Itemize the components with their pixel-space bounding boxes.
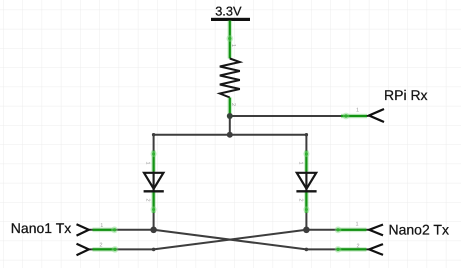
junction node: resistor / RPi wire [227, 113, 233, 119]
wire: Nano1 Tx pin1 to left node [89, 229, 153, 231]
svg-text:1: 1 [356, 222, 359, 228]
pin: 3.3V flag to resistor (green) [226, 21, 233, 59]
svg-text:1: 1 [230, 44, 236, 47]
corner dot: bus right [305, 133, 308, 136]
bend dot: right row2 [305, 248, 309, 252]
pin: Nano1 port pin1 (green) [93, 226, 118, 233]
pin: Nano2 port pin1 (green) [335, 226, 367, 233]
port chevron: Nano1 pin1 [77, 224, 89, 235]
diode D1 (left) [144, 173, 164, 192]
svg-text:2: 2 [100, 243, 103, 249]
pin: D2 anode (green) [303, 151, 309, 172]
port chevron: Nano2 pin1 [369, 225, 383, 236]
svg-text:2: 2 [357, 244, 360, 250]
wire: Nano1 Tx pin2 horizontal [89, 248, 153, 250]
svg-text:2: 2 [297, 199, 303, 202]
pin: resistor bottom (green) [228, 98, 233, 115]
svg-text:1: 1 [356, 108, 359, 114]
pin: Nano2 port pin2 (green) [335, 246, 367, 253]
svg-text:1: 1 [145, 162, 151, 165]
junction node: bus tee [227, 132, 233, 138]
wire: right diode branch vertical [305, 135, 307, 230]
wire: node to RPi Rx port [230, 115, 369, 117]
wire: crossover left-bottom to right-top [154, 230, 307, 250]
wire: right node to Nano2 Tx pin1 [306, 229, 368, 231]
svg-text:Nano1 Tx: Nano1 Tx [11, 220, 71, 236]
wire: left diode branch vertical [153, 135, 155, 230]
wire: node vertical segment [229, 116, 231, 135]
svg-text:RPi Rx: RPi Rx [384, 87, 428, 103]
pin: Nano1 port pin2 (green) [93, 246, 119, 253]
diode D2 (right) [296, 173, 316, 192]
junction node: left bottom [150, 227, 157, 234]
junction node: right bottom [303, 227, 310, 234]
pin: D1 anode (green) [151, 151, 157, 172]
wire: crossover left-top to right-bottom [154, 230, 307, 250]
svg-text:1: 1 [100, 223, 103, 229]
resistor R1 [220, 59, 240, 98]
wire: Nano2 Tx pin2 horizontal [306, 248, 368, 250]
port chevron: RPi Rx [369, 109, 384, 122]
pin: RPi Rx port (green) [341, 113, 367, 120]
corner dot: bus left [152, 133, 155, 136]
svg-text:1: 1 [297, 162, 303, 165]
wire: horizontal bus between diode branches [154, 134, 307, 136]
svg-text:2: 2 [145, 199, 151, 202]
svg-text:3.3V: 3.3V [215, 3, 242, 18]
port chevron: Nano2 pin2 [369, 244, 383, 255]
port chevron: Nano1 pin2 [77, 244, 89, 255]
svg-text:Nano2 Tx: Nano2 Tx [389, 222, 449, 238]
pin: D1 cathode (green) [151, 193, 157, 214]
bend dot: left row2 [152, 248, 156, 252]
pin: D2 cathode (green) [303, 193, 309, 214]
power flag 3.3V [211, 3, 250, 21]
